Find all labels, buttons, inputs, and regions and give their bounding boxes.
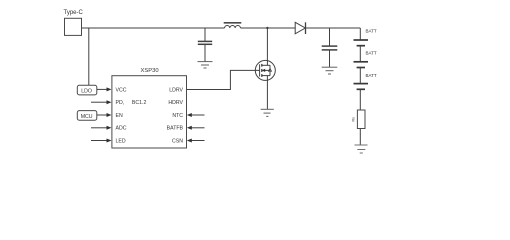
regulator LDO bbox=[77, 85, 97, 95]
wire LED input with arrow bbox=[91, 139, 112, 143]
svg-text:BATT: BATT bbox=[366, 73, 377, 78]
wire ADC input with arrow bbox=[91, 126, 112, 130]
svg-text:Rs: Rs bbox=[352, 117, 356, 122]
wire LDRV to gate of Q1 bbox=[187, 70, 260, 89]
svg-text:BATT: BATT bbox=[366, 51, 377, 56]
controller MCU bbox=[77, 111, 97, 121]
ground under C1 bbox=[198, 62, 213, 68]
battery BT1 cell 2 bbox=[354, 51, 377, 68]
diode D1 bbox=[295, 22, 305, 34]
transistor Q1 NMOS bbox=[255, 60, 275, 80]
svg-text:NTC: NTC bbox=[172, 113, 183, 119]
inductor L1 shielded bbox=[224, 23, 242, 28]
svg-text:BATFB: BATFB bbox=[167, 126, 184, 132]
wire MCU to EN pin with arrow bbox=[97, 113, 112, 117]
wire source of Q1 to ground bbox=[266, 76, 268, 110]
wire CSN input with arrow bbox=[187, 139, 205, 143]
ground under Q1 bbox=[261, 109, 274, 116]
svg-text:MCU: MCU bbox=[81, 114, 93, 120]
wire battery to resistor bbox=[359, 89, 361, 110]
svg-text:EN: EN bbox=[116, 113, 123, 119]
wire PD input with arrow bbox=[91, 100, 112, 104]
resistor Rs sense bbox=[352, 110, 366, 129]
wire rail inductor to diode bbox=[241, 27, 296, 29]
wire drain of Q1 from rail bbox=[266, 28, 268, 65]
wire VBUS top rail from Type-C to inductor bbox=[82, 27, 225, 29]
svg-text:Type-C: Type-C bbox=[64, 10, 84, 16]
wire BATFB input with arrow bbox=[187, 126, 205, 130]
svg-text:LDO: LDO bbox=[81, 89, 92, 95]
svg-text:PD, BC1.2: PD, BC1.2 bbox=[116, 100, 147, 106]
wire NTC input with arrow bbox=[187, 113, 205, 117]
ground under Rs bbox=[355, 145, 368, 153]
battery BT1 cell 1 bbox=[354, 28, 377, 45]
connector J1 Type-C bbox=[64, 10, 84, 36]
wire vertical drop from rail to LDO bbox=[88, 28, 90, 85]
ground under C2 bbox=[322, 67, 338, 74]
wire resistor to ground bbox=[359, 129, 361, 146]
svg-text:LDRV: LDRV bbox=[169, 87, 183, 93]
svg-text:CSN: CSN bbox=[172, 138, 183, 144]
wire between cell2 and cell3 bbox=[359, 68, 361, 84]
capacitor C1 bbox=[198, 28, 212, 62]
svg-text:BATT: BATT bbox=[366, 28, 377, 33]
IC U1 XSP30 bbox=[112, 68, 187, 148]
node junction drain/rail bbox=[266, 27, 268, 29]
wire rail diode to battery bbox=[306, 27, 361, 29]
battery BT1 cell 3 bbox=[354, 73, 377, 89]
svg-text:VCC: VCC bbox=[116, 87, 127, 93]
svg-text:LED: LED bbox=[116, 138, 126, 144]
svg-text:XSP30: XSP30 bbox=[141, 68, 159, 74]
svg-text:HDRV: HDRV bbox=[168, 100, 183, 106]
wire battery top lead bbox=[359, 28, 361, 40]
wire LDO to VCC pin with arrow bbox=[97, 87, 112, 91]
capacitor C2 bbox=[322, 28, 338, 67]
wire between cell1 and cell2 bbox=[359, 46, 361, 62]
svg-text:ADC: ADC bbox=[116, 126, 127, 132]
